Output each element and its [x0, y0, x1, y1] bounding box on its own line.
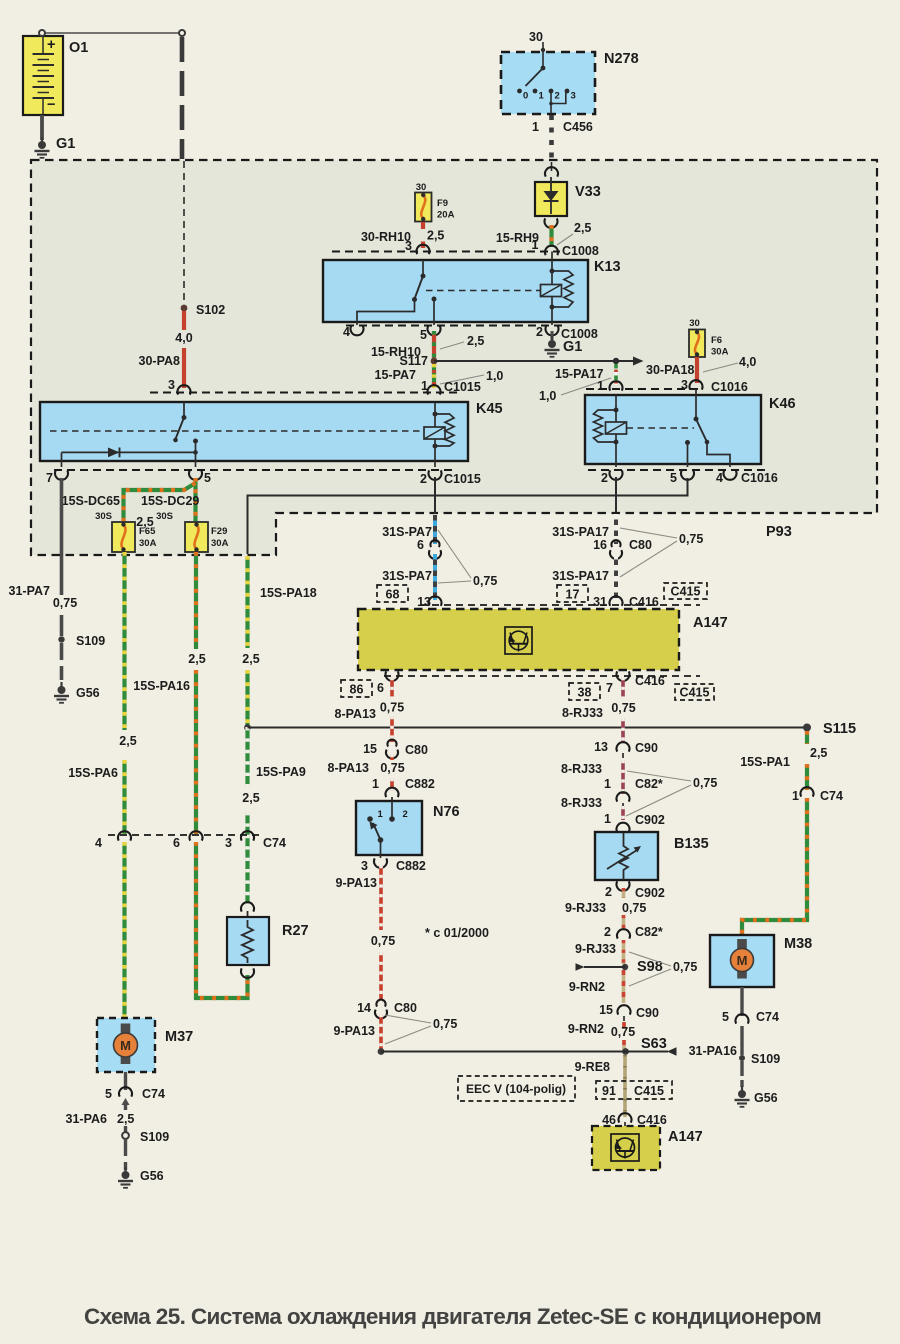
svg-text:1: 1 [532, 238, 539, 252]
svg-text:S102: S102 [196, 303, 225, 317]
svg-text:2: 2 [605, 885, 612, 899]
svg-text:A147: A147 [668, 1129, 703, 1145]
svg-text:1: 1 [604, 777, 611, 791]
svg-text:C1016: C1016 [711, 380, 748, 394]
svg-text:2,5: 2,5 [242, 791, 259, 805]
svg-text:15S-PA6: 15S-PA6 [68, 766, 118, 780]
svg-text:6: 6 [417, 538, 424, 552]
svg-text:C902: C902 [635, 886, 665, 900]
svg-text:C80: C80 [405, 743, 428, 757]
svg-text:F29: F29 [211, 526, 227, 537]
svg-text:8-PA13: 8-PA13 [328, 761, 370, 775]
svg-text:−: − [47, 97, 55, 113]
svg-text:2,5: 2,5 [242, 652, 259, 666]
svg-text:30-RH10: 30-RH10 [361, 230, 411, 244]
svg-text:6: 6 [173, 836, 180, 850]
svg-text:3: 3 [225, 836, 232, 850]
svg-text:C1015: C1015 [444, 472, 481, 486]
svg-text:S109: S109 [76, 634, 105, 648]
svg-text:4: 4 [343, 325, 350, 339]
svg-text:C882: C882 [396, 859, 426, 873]
svg-text:2,5: 2,5 [188, 652, 205, 666]
svg-text:4: 4 [95, 836, 102, 850]
svg-text:C415: C415 [680, 686, 710, 700]
svg-text:15-PA7: 15-PA7 [375, 368, 417, 382]
svg-text:31S-PA7: 31S-PA7 [382, 525, 432, 539]
svg-text:Схема 25. Система охлаждения д: Схема 25. Система охлаждения двигателя Z… [84, 1304, 821, 1329]
svg-text:M38: M38 [784, 936, 812, 952]
svg-text:30A: 30A [139, 538, 157, 549]
svg-text:2: 2 [403, 809, 408, 820]
svg-text:F65: F65 [139, 526, 156, 537]
svg-text:14: 14 [357, 1001, 371, 1015]
svg-text:C902: C902 [635, 813, 665, 827]
svg-text:+: + [47, 37, 55, 53]
svg-text:2,5: 2,5 [119, 734, 136, 748]
svg-text:2: 2 [604, 925, 611, 939]
svg-text:9-RN2: 9-RN2 [568, 1022, 604, 1036]
svg-text:S117: S117 [399, 354, 428, 368]
svg-text:2: 2 [536, 325, 543, 339]
svg-text:0,75: 0,75 [622, 901, 646, 915]
svg-text:8-RJ33: 8-RJ33 [561, 762, 602, 776]
svg-text:15S-DC65: 15S-DC65 [62, 494, 120, 508]
svg-text:9-RN2: 9-RN2 [569, 980, 605, 994]
svg-text:0,75: 0,75 [673, 960, 697, 974]
svg-text:91: 91 [602, 1084, 616, 1098]
svg-text:C82*: C82* [635, 925, 663, 939]
svg-text:0,75: 0,75 [380, 701, 404, 715]
svg-text:8-PA13: 8-PA13 [335, 707, 377, 721]
svg-text:M37: M37 [165, 1029, 193, 1045]
svg-text:C456: C456 [563, 120, 593, 134]
svg-text:0,75: 0,75 [371, 934, 395, 948]
svg-text:C74: C74 [263, 836, 286, 850]
svg-text:C1016: C1016 [741, 471, 778, 485]
svg-text:30: 30 [529, 30, 543, 44]
svg-text:C80: C80 [629, 538, 652, 552]
svg-text:G1: G1 [563, 339, 582, 355]
svg-text:15: 15 [599, 1003, 613, 1017]
svg-text:13: 13 [594, 740, 608, 754]
svg-text:1: 1 [532, 120, 539, 134]
svg-text:0,75: 0,75 [380, 761, 404, 775]
svg-text:G56: G56 [140, 1169, 164, 1183]
svg-text:4,0: 4,0 [739, 355, 756, 369]
svg-text:G1: G1 [56, 136, 75, 152]
svg-text:2,5: 2,5 [467, 334, 484, 348]
svg-text:O1: O1 [69, 40, 88, 56]
svg-text:0: 0 [523, 91, 528, 102]
svg-text:1: 1 [604, 812, 611, 826]
svg-text:2: 2 [555, 91, 560, 102]
svg-text:30A: 30A [711, 347, 729, 358]
svg-text:M: M [737, 953, 748, 968]
svg-text:3: 3 [571, 91, 576, 102]
svg-text:0,75: 0,75 [693, 776, 717, 790]
svg-text:C90: C90 [635, 741, 658, 755]
svg-text:30: 30 [416, 182, 427, 193]
svg-text:2,5: 2,5 [574, 221, 591, 235]
svg-text:0,75: 0,75 [611, 1025, 635, 1039]
svg-text:C416: C416 [635, 674, 665, 688]
svg-text:15S-PA18: 15S-PA18 [260, 586, 317, 600]
svg-text:B135: B135 [674, 836, 709, 852]
svg-text:G56: G56 [76, 686, 100, 700]
svg-text:1: 1 [372, 777, 379, 791]
svg-text:30S: 30S [156, 511, 173, 522]
svg-text:S98: S98 [637, 959, 663, 975]
svg-text:30A: 30A [211, 538, 229, 549]
svg-text:C1008: C1008 [562, 244, 599, 258]
svg-text:3: 3 [168, 378, 175, 392]
svg-text:1: 1 [378, 809, 384, 820]
svg-text:1,0: 1,0 [486, 369, 503, 383]
svg-text:C882: C882 [405, 777, 435, 791]
svg-text:2,5: 2,5 [117, 1112, 134, 1126]
svg-text:1: 1 [539, 91, 545, 102]
svg-text:8-RJ33: 8-RJ33 [561, 796, 602, 810]
svg-text:9-PA13: 9-PA13 [336, 876, 378, 890]
svg-text:N278: N278 [604, 51, 639, 67]
svg-text:30-PA18: 30-PA18 [646, 363, 694, 377]
svg-text:F6: F6 [711, 335, 722, 346]
svg-text:0,75: 0,75 [611, 701, 635, 715]
svg-text:20A: 20A [437, 210, 455, 221]
svg-text:C80: C80 [394, 1001, 417, 1015]
svg-text:3: 3 [361, 859, 368, 873]
svg-text:S109: S109 [751, 1052, 780, 1066]
svg-text:15S-PA16: 15S-PA16 [133, 679, 190, 693]
svg-text:EEC V (104-polig): EEC V (104-polig) [466, 1082, 566, 1096]
svg-text:16: 16 [593, 538, 607, 552]
svg-text:* с 01/2000: * с 01/2000 [425, 926, 489, 940]
svg-text:M: M [120, 1038, 131, 1053]
svg-text:15S-DC29: 15S-DC29 [141, 494, 199, 508]
svg-text:31-PA7: 31-PA7 [9, 584, 51, 598]
svg-text:7: 7 [606, 681, 613, 695]
svg-text:A147: A147 [693, 615, 728, 631]
svg-text:15S-PA9: 15S-PA9 [256, 765, 306, 779]
svg-text:30-PA8: 30-PA8 [139, 354, 181, 368]
svg-text:15S-PA1: 15S-PA1 [740, 755, 790, 769]
svg-text:5: 5 [670, 471, 677, 485]
svg-text:30S: 30S [95, 511, 112, 522]
svg-text:4,0: 4,0 [175, 331, 192, 345]
svg-text:0,75: 0,75 [679, 532, 703, 546]
svg-text:1: 1 [792, 789, 799, 803]
svg-text:G56: G56 [754, 1091, 778, 1105]
svg-text:1,0: 1,0 [539, 389, 556, 403]
svg-text:0,75: 0,75 [433, 1017, 457, 1031]
svg-text:1: 1 [597, 379, 604, 393]
svg-text:C415: C415 [671, 585, 701, 599]
svg-text:P93: P93 [766, 524, 792, 540]
svg-text:5: 5 [204, 471, 211, 485]
svg-text:5: 5 [722, 1010, 729, 1024]
svg-text:4: 4 [716, 471, 723, 485]
svg-text:9-RE8: 9-RE8 [575, 1060, 610, 1074]
svg-text:31-PA16: 31-PA16 [689, 1044, 737, 1058]
svg-text:C415: C415 [634, 1084, 664, 1098]
svg-text:15: 15 [363, 742, 377, 756]
svg-text:0,75: 0,75 [53, 596, 77, 610]
svg-text:2,5: 2,5 [427, 229, 444, 243]
svg-text:9-PA13: 9-PA13 [334, 1024, 376, 1038]
svg-text:31S-PA17: 31S-PA17 [552, 569, 609, 583]
svg-text:9-RJ33: 9-RJ33 [575, 942, 616, 956]
svg-text:7: 7 [46, 471, 53, 485]
svg-text:2: 2 [420, 472, 427, 486]
svg-text:30: 30 [689, 318, 700, 329]
svg-text:S115: S115 [823, 721, 856, 737]
svg-text:9-RJ33: 9-RJ33 [565, 901, 606, 915]
svg-text:C416: C416 [629, 595, 659, 609]
svg-text:31: 31 [593, 595, 607, 609]
svg-text:5: 5 [420, 328, 427, 342]
svg-text:68: 68 [386, 588, 400, 602]
svg-text:N76: N76 [433, 804, 460, 820]
svg-text:S63: S63 [641, 1036, 667, 1052]
svg-text:C74: C74 [756, 1010, 779, 1024]
svg-text:5: 5 [105, 1087, 112, 1101]
svg-text:C90: C90 [636, 1006, 659, 1020]
svg-text:2,5: 2,5 [810, 746, 827, 760]
svg-text:F9: F9 [437, 198, 448, 209]
svg-text:8-RJ33: 8-RJ33 [562, 706, 603, 720]
svg-text:6: 6 [377, 681, 384, 695]
svg-text:S109: S109 [140, 1130, 169, 1144]
svg-text:0,75: 0,75 [473, 574, 497, 588]
svg-text:C82*: C82* [635, 777, 663, 791]
svg-text:31-PA6: 31-PA6 [66, 1112, 108, 1126]
svg-text:86: 86 [350, 683, 364, 697]
svg-text:R27: R27 [282, 923, 309, 939]
svg-text:V33: V33 [575, 184, 601, 200]
svg-text:K46: K46 [769, 396, 796, 412]
svg-text:K45: K45 [476, 401, 503, 417]
svg-text:K13: K13 [594, 259, 621, 275]
svg-text:C74: C74 [820, 789, 843, 803]
svg-text:2: 2 [601, 471, 608, 485]
svg-text:17: 17 [566, 588, 580, 602]
svg-text:38: 38 [578, 686, 592, 700]
svg-text:31S-PA17: 31S-PA17 [552, 525, 609, 539]
svg-text:31S-PA7: 31S-PA7 [382, 569, 432, 583]
svg-text:C74: C74 [142, 1087, 165, 1101]
